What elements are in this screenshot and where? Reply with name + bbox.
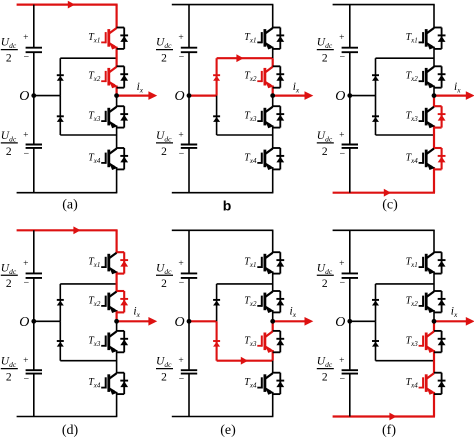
svg-text:2: 2 bbox=[322, 146, 328, 158]
svg-text:+: + bbox=[339, 356, 344, 366]
svg-text:Tx4: Tx4 bbox=[244, 152, 257, 165]
svg-text:+: + bbox=[178, 130, 183, 140]
svg-text:−: − bbox=[179, 149, 185, 160]
svg-text:+: + bbox=[23, 33, 28, 43]
svg-text:Tx4: Tx4 bbox=[244, 377, 257, 390]
svg-text:Tx1: Tx1 bbox=[244, 257, 256, 270]
svg-text:2: 2 bbox=[6, 372, 12, 384]
svg-text:2: 2 bbox=[6, 53, 12, 65]
svg-text:+: + bbox=[23, 356, 28, 366]
svg-text:+: + bbox=[339, 130, 344, 140]
svg-text:(a): (a) bbox=[62, 198, 78, 213]
svg-text:−: − bbox=[23, 52, 29, 63]
svg-text:Tx3: Tx3 bbox=[88, 111, 101, 124]
svg-text:+: + bbox=[339, 33, 344, 43]
svg-text:2: 2 bbox=[322, 53, 328, 65]
svg-text:2: 2 bbox=[161, 278, 167, 290]
svg-text:+: + bbox=[178, 33, 183, 43]
svg-text:Udc: Udc bbox=[1, 130, 17, 144]
svg-text:Tx2: Tx2 bbox=[88, 295, 101, 308]
svg-text:Tx1: Tx1 bbox=[88, 32, 100, 45]
svg-text:(c): (c) bbox=[382, 198, 398, 213]
svg-text:Udc: Udc bbox=[1, 37, 17, 51]
svg-text:Tx4: Tx4 bbox=[406, 377, 419, 390]
svg-text:Tx4: Tx4 bbox=[88, 152, 101, 165]
svg-text:Udc: Udc bbox=[156, 262, 172, 276]
svg-text:2: 2 bbox=[322, 278, 328, 290]
svg-text:ix: ix bbox=[454, 81, 461, 95]
svg-text:(f): (f) bbox=[382, 423, 396, 438]
svg-text:O: O bbox=[174, 89, 184, 104]
svg-text:(d): (d) bbox=[62, 423, 79, 438]
svg-text:Udc: Udc bbox=[156, 130, 172, 144]
svg-text:Udc: Udc bbox=[1, 262, 17, 276]
svg-text:Tx3: Tx3 bbox=[406, 335, 419, 348]
svg-text:Udc: Udc bbox=[317, 356, 333, 370]
svg-text:−: − bbox=[23, 278, 29, 289]
svg-text:ix: ix bbox=[133, 306, 140, 320]
svg-text:Tx3: Tx3 bbox=[88, 335, 101, 348]
svg-text:Tx3: Tx3 bbox=[244, 111, 257, 124]
svg-text:Tx2: Tx2 bbox=[244, 71, 257, 84]
svg-text:2: 2 bbox=[6, 146, 12, 158]
svg-text:ix: ix bbox=[137, 81, 144, 95]
svg-text:Udc: Udc bbox=[156, 37, 172, 51]
svg-text:−: − bbox=[339, 52, 345, 63]
svg-text:b: b bbox=[223, 197, 232, 213]
svg-text:Udc: Udc bbox=[317, 262, 333, 276]
svg-text:−: − bbox=[23, 374, 29, 385]
svg-text:Tx2: Tx2 bbox=[88, 71, 101, 84]
svg-text:+: + bbox=[23, 130, 28, 140]
svg-text:Tx1: Tx1 bbox=[406, 32, 418, 45]
svg-text:Tx2: Tx2 bbox=[406, 71, 419, 84]
svg-text:Tx2: Tx2 bbox=[244, 295, 257, 308]
svg-text:−: − bbox=[179, 52, 185, 63]
svg-text:O: O bbox=[335, 89, 345, 104]
svg-text:Tx4: Tx4 bbox=[88, 377, 101, 390]
svg-text:2: 2 bbox=[6, 278, 12, 290]
svg-text:+: + bbox=[178, 356, 183, 366]
svg-text:+: + bbox=[339, 259, 344, 269]
svg-text:ix: ix bbox=[451, 306, 458, 320]
svg-text:ix: ix bbox=[290, 306, 297, 320]
svg-text:O: O bbox=[335, 315, 345, 330]
svg-text:Udc: Udc bbox=[156, 356, 172, 370]
svg-text:−: − bbox=[339, 374, 345, 385]
svg-text:−: − bbox=[339, 278, 345, 289]
svg-text:O: O bbox=[174, 315, 184, 330]
svg-text:−: − bbox=[179, 278, 185, 289]
svg-text:Tx4: Tx4 bbox=[406, 152, 419, 165]
svg-text:Udc: Udc bbox=[317, 130, 333, 144]
svg-text:2: 2 bbox=[322, 372, 328, 384]
svg-text:ix: ix bbox=[293, 81, 300, 95]
svg-text:+: + bbox=[178, 259, 183, 269]
svg-text:Udc: Udc bbox=[1, 356, 17, 370]
svg-text:O: O bbox=[19, 315, 29, 330]
svg-text:Tx2: Tx2 bbox=[406, 295, 419, 308]
svg-text:Tx1: Tx1 bbox=[244, 32, 256, 45]
svg-text:2: 2 bbox=[161, 53, 167, 65]
svg-text:O: O bbox=[19, 89, 29, 104]
svg-text:Udc: Udc bbox=[317, 37, 333, 51]
svg-text:(e): (e) bbox=[220, 423, 236, 438]
svg-text:Tx3: Tx3 bbox=[406, 111, 419, 124]
svg-text:Tx1: Tx1 bbox=[88, 257, 100, 270]
svg-text:−: − bbox=[339, 149, 345, 160]
svg-text:Tx1: Tx1 bbox=[406, 257, 418, 270]
svg-text:2: 2 bbox=[161, 146, 167, 158]
svg-text:−: − bbox=[23, 149, 29, 160]
svg-text:Tx3: Tx3 bbox=[244, 335, 257, 348]
svg-text:+: + bbox=[23, 259, 28, 269]
svg-text:−: − bbox=[179, 374, 185, 385]
svg-text:2: 2 bbox=[161, 372, 167, 384]
